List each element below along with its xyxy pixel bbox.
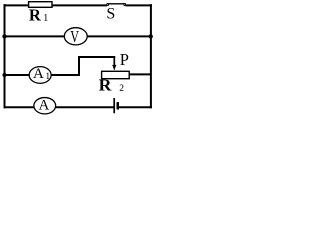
svg-text:1: 1 [45,72,50,82]
ammeter A [34,98,56,114]
battery cell: long plate (+) [113,98,115,113]
junction dot: right / voltmeter [149,34,153,38]
wire: top, battery+ to switch (passes under R1) [4,4,108,6]
svg-text:S: S [106,6,115,23]
svg-text:2: 2 [119,84,124,94]
svg-text:A: A [39,98,50,114]
wire: top right, switch to corner [126,4,153,6]
wire: R2 right terminal to right edge [130,73,152,75]
wire: bottom, left of battery [4,106,115,108]
ammeter A1 [29,67,51,84]
wire: ammeter A1 branch [4,74,81,76]
switch S terminal right [124,4,125,6]
svg-text:A: A [33,66,44,82]
svg-text:P: P [120,50,129,69]
switch S terminal left [107,4,108,6]
wire: bottom, right of battery [118,106,152,108]
wire: jog up from A1 to wiper route [78,57,80,75]
svg-text:V: V [70,27,79,46]
wire: wiper route horizontal [78,56,115,58]
svg-text:1: 1 [43,13,48,24]
battery cell: short plate (-) [117,102,120,109]
svg-text:R: R [99,75,113,94]
wire: voltmeter branch [4,35,152,37]
switch S lever [108,3,125,5]
wire: right edge vertical [150,4,152,108]
wiper arrowhead P [112,65,116,71]
rheostat R2 [102,71,130,78]
voltmeter V [64,28,87,45]
wire: drop to wiper arrow [113,57,115,67]
junction dot: left / voltmeter [2,34,6,38]
junction dot: left / A1 [2,73,6,77]
resistor R1 [29,2,52,8]
wire: left edge vertical [4,4,6,108]
svg-text:R: R [29,6,42,25]
